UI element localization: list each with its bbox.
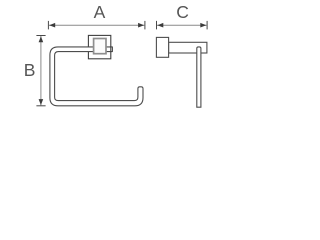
dimension B line	[40, 36, 42, 105]
dimension C left tick	[156, 21, 158, 30]
dimension A left arrow	[49, 23, 55, 28]
dimension B bottom tick	[36, 105, 45, 107]
dimension C right arrow	[200, 23, 206, 28]
dimension A left tick	[47, 21, 49, 30]
arm (side view)	[169, 42, 207, 53]
wall plate right border over tube	[110, 46, 112, 52]
svg-text:A: A	[94, 2, 106, 22]
hanging bar (side view)	[197, 47, 201, 107]
dimension B top arrow	[39, 36, 44, 42]
dimension A right arrow	[138, 23, 144, 28]
wall plate (front view)	[88, 35, 110, 58]
wall plate block (side view)	[156, 37, 168, 57]
svg-text:B: B	[24, 60, 36, 80]
towel ring tube (front view)	[50, 47, 143, 106]
dimension B top tick	[36, 35, 45, 37]
dimension C right tick	[206, 21, 208, 30]
dimension A right tick	[144, 21, 146, 30]
dimension B bottom arrow	[39, 99, 44, 105]
svg-text:C: C	[176, 2, 189, 22]
dimension C left arrow	[157, 23, 163, 28]
wall plate inner square	[94, 39, 106, 54]
dimension C line	[157, 24, 207, 26]
dimension A line	[49, 24, 144, 26]
